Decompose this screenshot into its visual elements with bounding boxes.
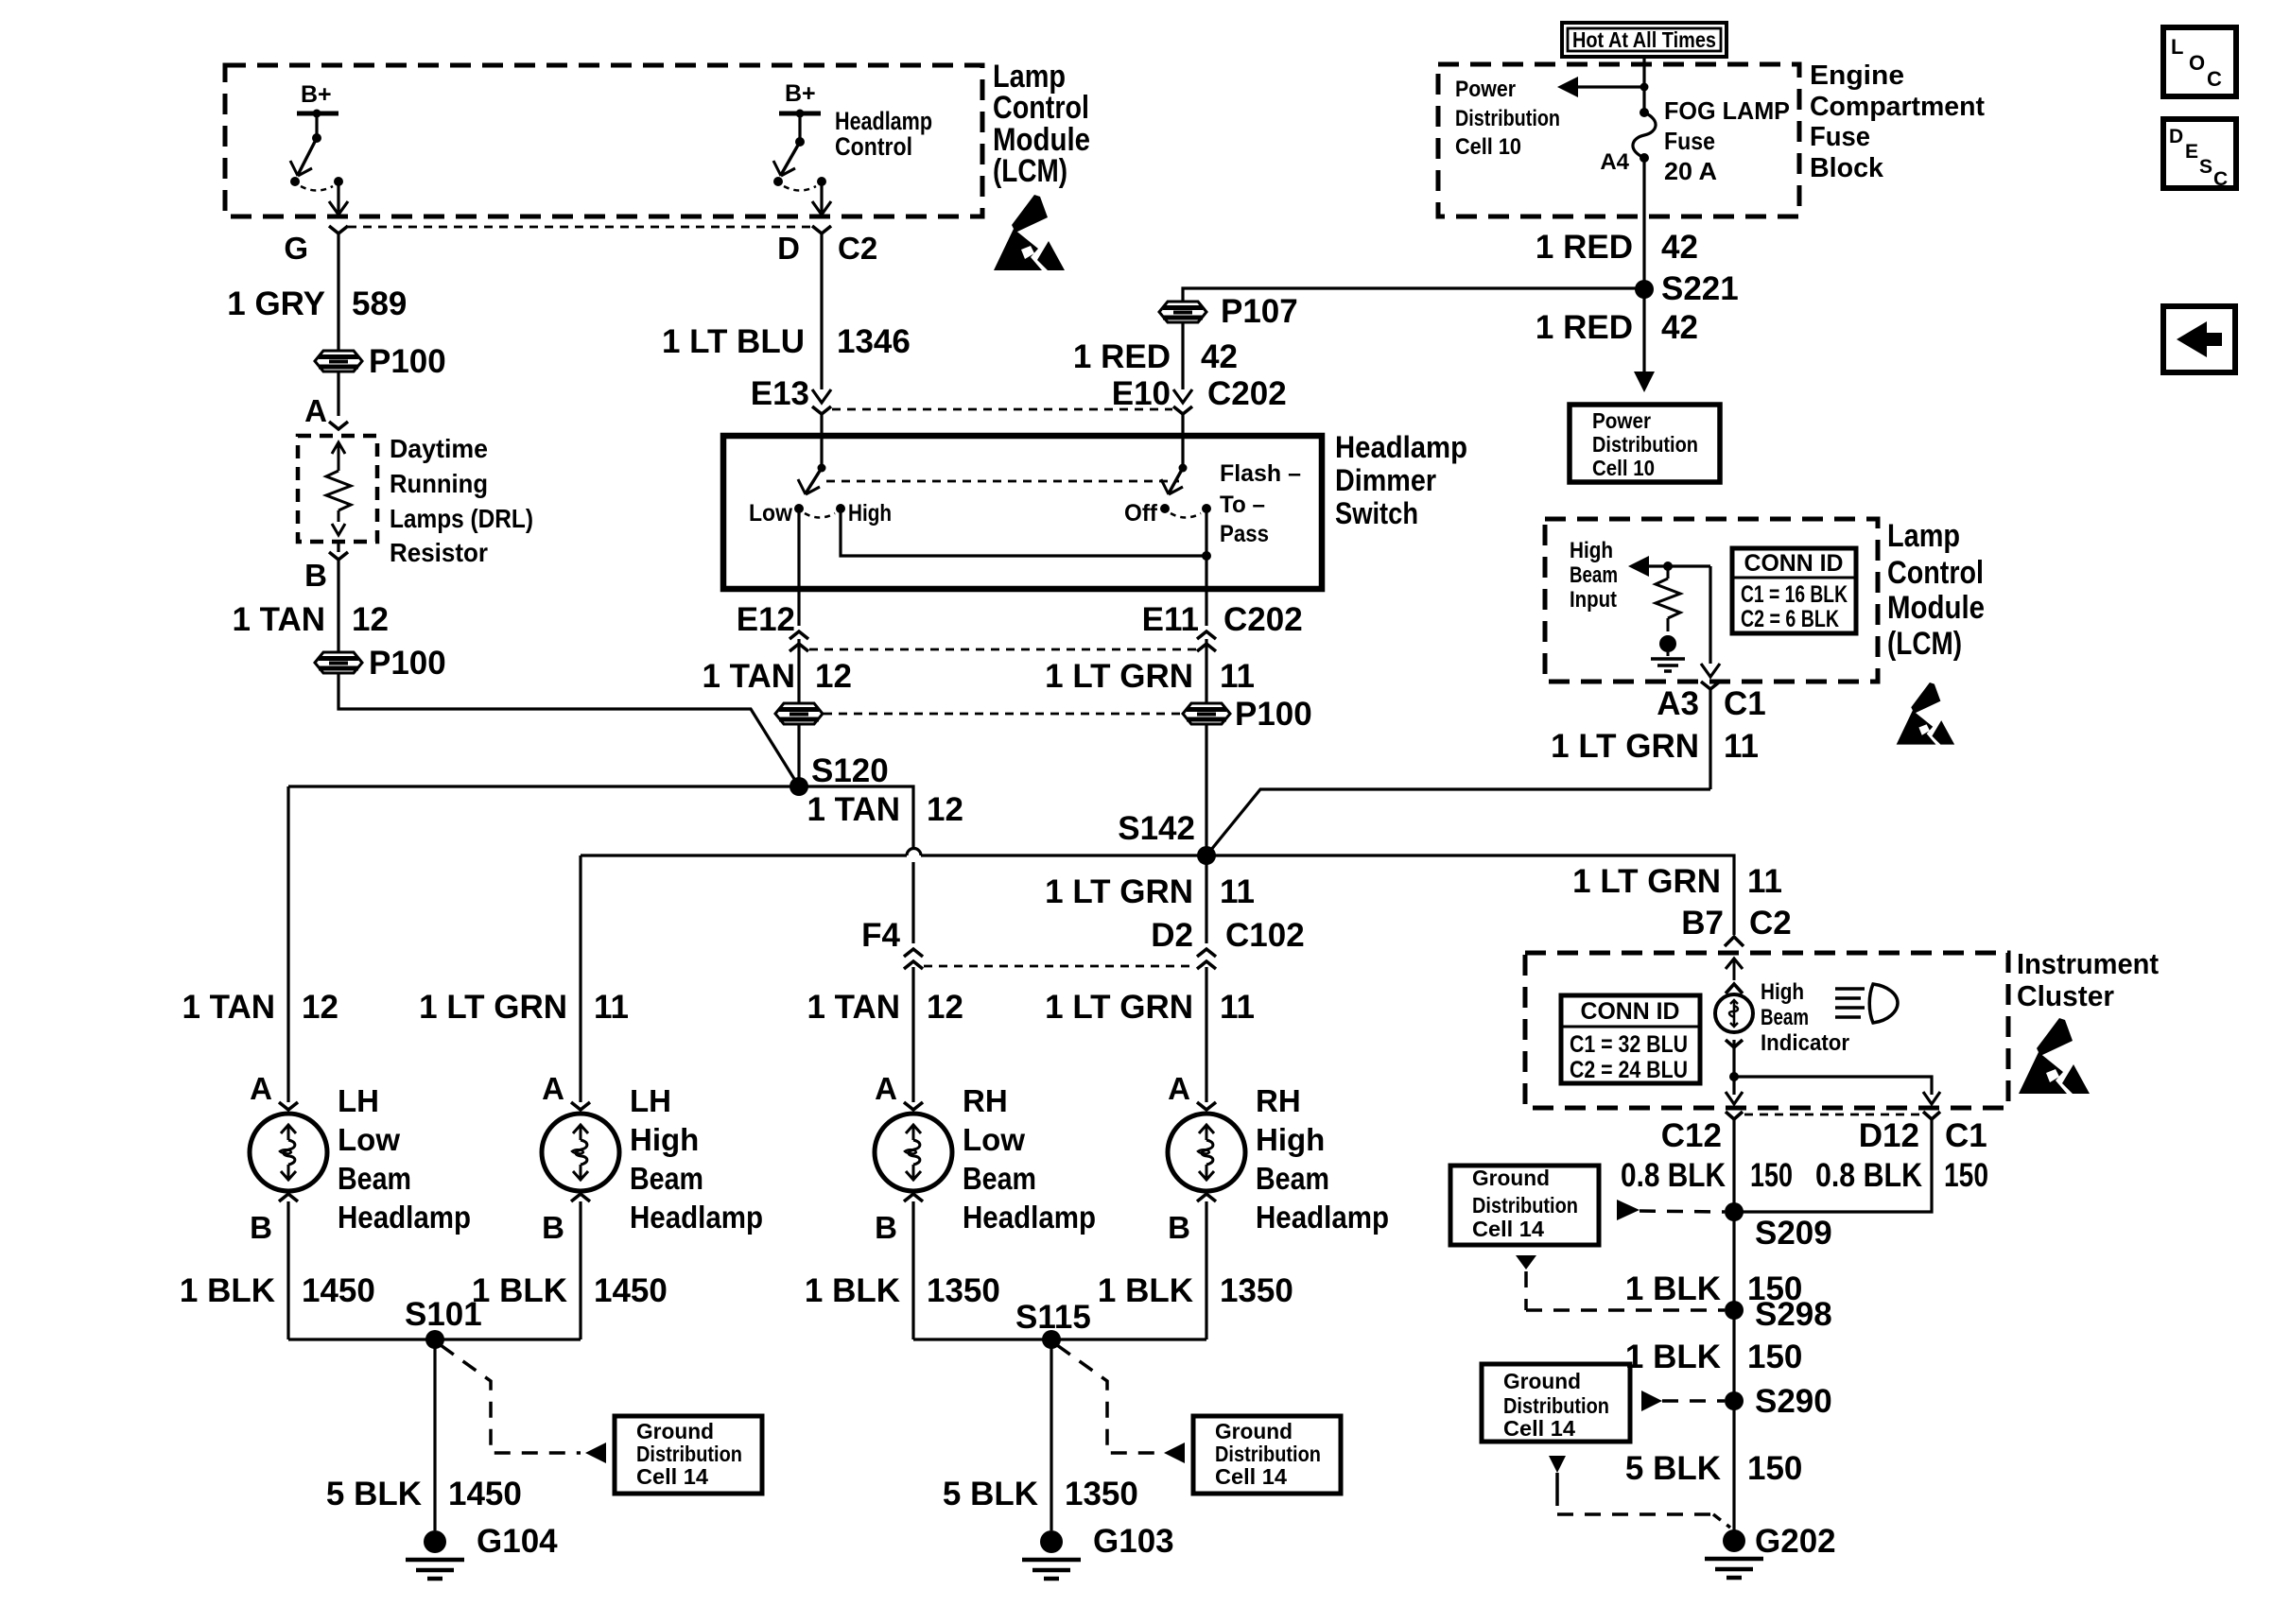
connector C12	[1726, 1112, 1743, 1119]
svg-text:12: 12	[302, 989, 338, 1026]
splice S298	[1725, 1301, 1744, 1320]
connector D2	[1197, 949, 1216, 957]
wire into dimmer	[820, 414, 823, 440]
svg-text:D: D	[2169, 126, 2183, 147]
RH Low Beam Headlamp bulb	[875, 1114, 952, 1191]
svg-text:C202: C202	[1223, 601, 1303, 638]
svg-text:5 BLK: 5 BLK	[326, 1476, 422, 1512]
svg-text:D12: D12	[1859, 1117, 1919, 1154]
wire 1 RED 42 (above S221)	[1642, 158, 1645, 288]
svg-text:Block: Block	[1810, 153, 1884, 183]
svg-text:(LCM): (LCM)	[1887, 626, 1962, 662]
svg-text:1 TAN: 1 TAN	[807, 989, 900, 1026]
connector P100 (TAN left)	[315, 652, 362, 673]
switch link dashed	[826, 480, 1179, 483]
svg-text:S298: S298	[1755, 1296, 1832, 1333]
wire 1 LT GRN 11 (A3)	[1709, 689, 1711, 789]
ground G202	[1723, 1529, 1745, 1552]
svg-text:O: O	[2189, 51, 2205, 75]
svg-text:Cell 10: Cell 10	[1592, 456, 1655, 480]
svg-text:1350: 1350	[927, 1272, 1000, 1309]
high beam indicator bulb	[1715, 994, 1753, 1032]
svg-text:Distribution: Distribution	[1455, 106, 1560, 131]
wire to S120	[338, 673, 799, 786]
svg-text:Beam: Beam	[338, 1161, 411, 1196]
svg-text:Cell 14: Cell 14	[1472, 1217, 1544, 1241]
svg-text:A: A	[304, 393, 327, 428]
svg-text:Fuse: Fuse	[1664, 127, 1715, 155]
splice S142	[1205, 724, 1207, 855]
svg-text:1 LT GRN: 1 LT GRN	[1045, 989, 1193, 1026]
arrow to power distribution	[1634, 371, 1655, 392]
pin B DRL	[337, 542, 339, 552]
ground dist dashed to G202	[1549, 1456, 1566, 1473]
ESD symbol cluster	[2019, 1018, 2090, 1094]
svg-text:C2 = 6 BLK: C2 = 6 BLK	[1741, 606, 1839, 632]
svg-text:High: High	[1256, 1122, 1325, 1157]
connector A3 C1	[1709, 566, 1711, 664]
svg-text:1 BLK: 1 BLK	[805, 1272, 900, 1309]
svg-text:G104: G104	[477, 1523, 558, 1560]
svg-text:42: 42	[1661, 309, 1698, 346]
wire S142 up-right to LCM	[1206, 789, 1710, 855]
svg-text:E10: E10	[1112, 375, 1171, 412]
svg-text:Switch: Switch	[1335, 496, 1418, 530]
connector E13	[812, 389, 831, 403]
splice S120	[797, 724, 800, 786]
svg-text:1350: 1350	[1220, 1272, 1293, 1309]
svg-text:S: S	[2199, 156, 2212, 178]
ground distribution cell 14 box (S209)	[1450, 1166, 1599, 1245]
svg-text:A: A	[1168, 1071, 1190, 1106]
svg-text:1350: 1350	[1065, 1476, 1138, 1512]
svg-text:A: A	[875, 1071, 897, 1106]
wire 1 BLK 150 (S298-S290)	[1732, 1310, 1735, 1401]
svg-text:589: 589	[352, 285, 407, 322]
svg-text:Lamp: Lamp	[1887, 518, 1960, 554]
splice S101	[288, 1338, 581, 1340]
svg-text:S101: S101	[405, 1296, 482, 1333]
svg-text:C1: C1	[1724, 685, 1766, 722]
svg-text:Module: Module	[1887, 590, 1985, 626]
svg-text:Control: Control	[835, 132, 912, 161]
svg-text:1 GRY: 1 GRY	[227, 285, 325, 322]
svg-text:Distribution: Distribution	[1215, 1442, 1321, 1466]
hot at all times box	[1562, 23, 1726, 57]
svg-text:C2 = 24 BLU: C2 = 24 BLU	[1570, 1057, 1688, 1083]
svg-text:Beam: Beam	[963, 1161, 1036, 1196]
svg-text:Flash –: Flash –	[1220, 460, 1301, 487]
svg-text:Distribution: Distribution	[1503, 1393, 1609, 1418]
svg-text:C1: C1	[1945, 1117, 1987, 1154]
ground dist arrow to S209	[1617, 1200, 1640, 1220]
svg-text:1 LT GRN: 1 LT GRN	[1045, 658, 1193, 695]
wire 1 LT GRN 11 to RH high beam lamp	[1205, 967, 1207, 1102]
svg-text:Ground: Ground	[1503, 1369, 1581, 1393]
wire 5 BLK 1350	[1050, 1339, 1052, 1530]
instrument cluster dashed box	[1525, 953, 2008, 1108]
svg-text:150: 150	[1750, 1157, 1793, 1194]
low-high switch	[820, 440, 823, 468]
connector E11	[1205, 589, 1207, 626]
connector F4	[904, 949, 923, 957]
svg-text:E: E	[2185, 141, 2198, 163]
svg-text:High: High	[1570, 538, 1613, 563]
svg-text:Beam: Beam	[1570, 562, 1618, 588]
svg-text:C: C	[2207, 67, 2222, 91]
svg-text:S221: S221	[1661, 270, 1739, 307]
C102 dashed link (F4-D2)	[924, 965, 1195, 968]
svg-text:42: 42	[1201, 338, 1238, 375]
wire to DRL A	[337, 371, 339, 416]
wire 0.8 BLK 150 (C12)	[1732, 1119, 1735, 1212]
wire S142 down	[1205, 855, 1207, 943]
svg-text:C202: C202	[1207, 375, 1287, 412]
ground distribution dashed ref (S101)	[441, 1345, 581, 1453]
svg-text:1346: 1346	[837, 323, 911, 360]
lamp control module (LCM) dashed box	[225, 65, 982, 216]
svg-text:Instrument: Instrument	[2017, 947, 2159, 980]
ground distribution dashed ref (S115)	[1057, 1345, 1159, 1453]
svg-text:Indicator: Indicator	[1761, 1030, 1849, 1056]
svg-text:C2: C2	[838, 231, 877, 266]
svg-text:Fuse: Fuse	[1810, 122, 1870, 152]
svg-text:To –: To –	[1220, 492, 1265, 518]
svg-text:L: L	[2171, 35, 2183, 59]
svg-text:150: 150	[1747, 1339, 1802, 1375]
svg-text:1 TAN: 1 TAN	[182, 989, 275, 1026]
svg-text:11: 11	[594, 989, 629, 1026]
svg-text:Distribution: Distribution	[1472, 1193, 1578, 1218]
svg-text:Cell 14: Cell 14	[636, 1464, 708, 1489]
wire from S221 to P107	[1183, 288, 1644, 302]
svg-text:Headlamp: Headlamp	[1335, 430, 1467, 464]
wire 5 BLK 150 (S290-G202)	[1732, 1401, 1735, 1530]
svg-text:G202: G202	[1755, 1523, 1836, 1560]
C202 dashed link (E13-E10)	[832, 408, 1172, 411]
headlamp dimmer switch box	[723, 436, 1322, 589]
ESD symbol LCM1	[994, 195, 1065, 270]
svg-text:1450: 1450	[594, 1272, 668, 1309]
headlamp control switch 2 (D)	[781, 142, 800, 175]
connector P100 (GRN)	[1183, 703, 1230, 724]
wire 1 RED 42 (below S221)	[1642, 289, 1645, 374]
svg-text:Hot At All Times: Hot At All Times	[1572, 27, 1716, 52]
svg-text:CONN ID: CONN ID	[1744, 550, 1844, 577]
svg-text:C12: C12	[1661, 1117, 1722, 1154]
svg-text:1 LT GRN: 1 LT GRN	[1045, 873, 1193, 910]
connector P107	[1159, 302, 1206, 322]
svg-text:Low: Low	[749, 500, 792, 527]
svg-text:B: B	[875, 1210, 897, 1245]
B+ terminal 2	[779, 112, 821, 116]
svg-text:1 TAN: 1 TAN	[702, 658, 795, 695]
pin B LH high	[571, 1194, 590, 1201]
svg-text:5 BLK: 5 BLK	[943, 1476, 1038, 1512]
svg-text:E11: E11	[1142, 601, 1199, 638]
svg-text:12: 12	[352, 601, 389, 638]
svg-text:Power: Power	[1455, 77, 1516, 102]
svg-text:E13: E13	[751, 375, 809, 412]
svg-text:C: C	[2213, 168, 2228, 190]
svg-text:Headlamp: Headlamp	[630, 1200, 763, 1235]
svg-text:High: High	[848, 500, 892, 527]
svg-text:B+: B+	[785, 80, 816, 107]
svg-text:Beam: Beam	[630, 1161, 703, 1196]
svg-text:Low: Low	[338, 1122, 400, 1157]
wire 1 GRY 589	[337, 233, 339, 351]
wire 1 LT GRN 11 (E11)	[1205, 639, 1207, 703]
wire hot to fuse	[1642, 57, 1645, 112]
svg-text:RH: RH	[1256, 1083, 1301, 1118]
svg-text:150: 150	[1944, 1157, 1988, 1194]
pin B RH high	[1197, 1194, 1216, 1201]
off-flash switch	[1181, 440, 1184, 468]
svg-text:Beam: Beam	[1256, 1161, 1329, 1196]
fuse FOG LAMP 20A	[1640, 108, 1649, 117]
svg-text:Cell 14: Cell 14	[1215, 1464, 1287, 1489]
svg-text:High: High	[630, 1122, 699, 1157]
svg-text:Cluster: Cluster	[2017, 979, 2114, 1012]
splice S209	[1725, 1202, 1744, 1221]
splice S221	[1635, 280, 1654, 299]
svg-text:Input: Input	[1570, 587, 1617, 613]
svg-text:Running: Running	[390, 469, 488, 498]
svg-text:Cell 14: Cell 14	[1503, 1416, 1575, 1441]
svg-text:1 BLK: 1 BLK	[180, 1272, 275, 1309]
C202 dashed link (E12-E11)	[809, 648, 1196, 651]
LOC box	[2163, 27, 2236, 96]
wire into dimmer 2	[1181, 414, 1184, 440]
RH High Beam Headlamp bulb	[1168, 1114, 1245, 1191]
svg-text:1 TAN: 1 TAN	[232, 601, 325, 638]
svg-text:1 LT GRN: 1 LT GRN	[1572, 863, 1721, 900]
svg-text:1450: 1450	[302, 1272, 375, 1309]
ESD symbol LCM2	[1897, 682, 1954, 745]
svg-text:FOG LAMP: FOG LAMP	[1664, 96, 1790, 125]
wire S142 right to cluster	[1206, 855, 1734, 935]
wire 1 TAN 12 to LH low beam lamp	[286, 786, 289, 1102]
svg-text:D: D	[777, 231, 800, 266]
connector E12	[797, 589, 800, 626]
svg-text:A3: A3	[1657, 685, 1699, 722]
wire 1 TAN 12 to RH low beam lamp	[911, 967, 914, 1102]
svg-text:Power: Power	[1592, 408, 1651, 433]
svg-text:S142: S142	[1118, 810, 1195, 847]
power distribution arrow (fuse box)	[1573, 85, 1644, 88]
cluster entry	[1726, 959, 1743, 969]
pin B LH low	[279, 1194, 298, 1201]
svg-text:C102: C102	[1225, 917, 1305, 954]
svg-text:150: 150	[1747, 1450, 1802, 1487]
svg-text:Headlamp: Headlamp	[835, 107, 932, 135]
svg-text:Ground: Ground	[1215, 1419, 1293, 1443]
wire S120 left to LH low	[288, 785, 799, 787]
pin D connector	[812, 226, 831, 233]
back arrow box	[2163, 306, 2235, 372]
svg-text:11: 11	[1747, 863, 1782, 900]
CONN ID box (LCM2)	[1732, 548, 1856, 633]
svg-text:5 BLK: 5 BLK	[1625, 1450, 1721, 1487]
wire S120 right	[799, 786, 913, 848]
svg-text:Ground: Ground	[636, 1419, 714, 1443]
wire 5 BLK 1450	[433, 1339, 436, 1530]
svg-text:LH: LH	[630, 1083, 671, 1118]
svg-text:B: B	[1168, 1210, 1190, 1245]
svg-text:A: A	[542, 1071, 564, 1106]
svg-text:1 LT GRN: 1 LT GRN	[419, 989, 567, 1026]
svg-text:Headlamp: Headlamp	[963, 1200, 1096, 1235]
DRL resistor element	[332, 442, 345, 454]
wire 1 TAN 12 (left)	[337, 560, 339, 652]
svg-text:A4: A4	[1600, 149, 1629, 175]
svg-text:Distribution: Distribution	[1592, 432, 1698, 457]
svg-text:11: 11	[1724, 728, 1759, 765]
ground distribution cell 14 box (S101)	[615, 1416, 762, 1494]
svg-text:Control: Control	[1887, 555, 1984, 591]
wire 1 TAN 12 (E12)	[797, 639, 800, 703]
ground dist arrow to S290	[1641, 1391, 1662, 1411]
P100 dashed link	[824, 713, 1181, 716]
wire S142 left to LH high	[581, 854, 907, 856]
pin G connector	[329, 226, 348, 233]
svg-text:1 BLK: 1 BLK	[1098, 1272, 1193, 1309]
svg-text:Control: Control	[993, 90, 1089, 126]
svg-text:11: 11	[1220, 989, 1255, 1026]
svg-text:C2: C2	[1749, 905, 1792, 942]
svg-text:1 RED: 1 RED	[1536, 229, 1633, 266]
wire 0.8 BLK 150 (D12)	[1734, 1119, 1932, 1212]
svg-text:Resistor: Resistor	[390, 538, 488, 567]
connector E10	[1173, 389, 1192, 403]
svg-text:12: 12	[927, 989, 963, 1026]
svg-text:0.8 BLK: 0.8 BLK	[1621, 1157, 1726, 1194]
svg-text:RH: RH	[963, 1083, 1008, 1118]
svg-text:Dimmer: Dimmer	[1335, 463, 1436, 497]
low contact wire	[797, 509, 800, 589]
svg-text:12: 12	[927, 791, 963, 828]
svg-text:S120: S120	[811, 752, 889, 789]
svg-text:High: High	[1761, 979, 1804, 1005]
svg-text:1 LT GRN: 1 LT GRN	[1551, 728, 1699, 765]
svg-text:CONN ID: CONN ID	[1581, 998, 1680, 1025]
svg-text:Distribution: Distribution	[636, 1442, 742, 1466]
svg-text:P100: P100	[1235, 696, 1312, 733]
svg-text:0.8 BLK: 0.8 BLK	[1815, 1157, 1922, 1194]
svg-text:B+: B+	[301, 81, 332, 108]
ground distribution cell 14 box (S115)	[1193, 1416, 1341, 1494]
indicator output wire	[1726, 1040, 1743, 1047]
wire hop over	[907, 849, 921, 855]
svg-text:A: A	[250, 1071, 272, 1106]
engine compartment fuse block dashed box	[1438, 64, 1799, 216]
svg-text:Pass: Pass	[1220, 521, 1269, 547]
cluster conn dashed link	[1744, 1114, 1921, 1116]
svg-text:B: B	[250, 1210, 272, 1245]
svg-text:Headlamp: Headlamp	[1256, 1200, 1389, 1235]
LCM2 dashed box	[1545, 519, 1878, 682]
ground distribution cell 14 box (S290)	[1482, 1364, 1630, 1442]
CONN ID box (cluster)	[1561, 995, 1700, 1083]
wire 1 LT BLU 1346	[820, 233, 823, 389]
indicator wire to C1	[1734, 1077, 1932, 1095]
svg-text:11: 11	[1220, 873, 1255, 910]
splice S290	[1725, 1391, 1744, 1410]
svg-text:D2: D2	[1151, 917, 1193, 954]
svg-text:Cell 10: Cell 10	[1455, 134, 1521, 160]
svg-text:1 TAN: 1 TAN	[807, 791, 900, 828]
svg-text:B7: B7	[1681, 905, 1724, 942]
wire 1 LT GRN 11 to LH high beam lamp	[579, 855, 581, 1102]
C2 connector dashed link (G-D)	[348, 226, 811, 229]
svg-text:(LCM): (LCM)	[993, 153, 1067, 189]
connector B7 C2	[1725, 937, 1744, 946]
LH Low Beam Headlamp bulb	[250, 1114, 327, 1191]
svg-text:1 BLK: 1 BLK	[472, 1272, 567, 1309]
svg-text:S209: S209	[1755, 1215, 1832, 1252]
svg-text:C1 = 16 BLK: C1 = 16 BLK	[1741, 581, 1848, 608]
svg-text:Ground: Ground	[1472, 1166, 1550, 1190]
svg-text:S115: S115	[1015, 1299, 1091, 1336]
connector P100 (GRY)	[315, 351, 362, 371]
svg-text:1 BLK: 1 BLK	[1625, 1270, 1721, 1307]
svg-text:B: B	[542, 1210, 564, 1245]
svg-text:1450: 1450	[448, 1476, 522, 1512]
svg-text:LH: LH	[338, 1083, 379, 1118]
svg-text:P100: P100	[369, 343, 446, 380]
svg-text:Compartment: Compartment	[1810, 92, 1985, 122]
svg-text:B: B	[304, 558, 327, 593]
svg-text:C1 = 32 BLU: C1 = 32 BLU	[1570, 1031, 1688, 1058]
connector D12 C1	[1923, 1112, 1940, 1119]
ground dist dashed to S298	[1516, 1255, 1536, 1270]
svg-text:G103: G103	[1093, 1523, 1174, 1560]
svg-text:Daytime: Daytime	[390, 434, 488, 463]
DESC box	[2163, 119, 2236, 188]
wire 1 BLK 150 (S209-S298)	[1732, 1212, 1735, 1310]
wire 1 RED 42 (to E10)	[1181, 322, 1184, 389]
svg-text:Low: Low	[963, 1122, 1025, 1157]
B+ terminal 1	[297, 112, 338, 116]
connector P100 (TAN)	[775, 703, 823, 724]
ground G103	[1040, 1530, 1063, 1553]
svg-text:1 LT BLU: 1 LT BLU	[662, 323, 805, 360]
svg-text:20 A: 20 A	[1664, 157, 1717, 185]
svg-text:P100: P100	[369, 645, 446, 682]
ground G104	[424, 1530, 446, 1553]
svg-text:1 RED: 1 RED	[1536, 309, 1633, 346]
svg-text:Headlamp: Headlamp	[338, 1200, 471, 1235]
svg-text:Off: Off	[1124, 500, 1158, 527]
svg-text:1 BLK: 1 BLK	[1625, 1339, 1721, 1375]
splice S115	[913, 1338, 1206, 1340]
svg-text:11: 11	[1220, 658, 1255, 695]
high beam input arrow	[1628, 556, 1649, 577]
headlamp-control switch 1 (G)	[298, 138, 317, 175]
LH High Beam Headlamp bulb	[542, 1114, 619, 1191]
svg-text:G: G	[284, 231, 308, 266]
svg-text:E12: E12	[737, 601, 795, 638]
pin B RH low	[904, 1194, 923, 1201]
svg-text:Lamps (DRL): Lamps (DRL)	[390, 504, 533, 533]
svg-text:S290: S290	[1755, 1383, 1832, 1420]
svg-text:Beam: Beam	[1761, 1005, 1809, 1030]
svg-text:Engine: Engine	[1810, 60, 1904, 91]
svg-text:42: 42	[1661, 229, 1698, 266]
svg-text:1 RED: 1 RED	[1073, 338, 1171, 375]
svg-text:P107: P107	[1221, 293, 1298, 330]
flash contact wire	[1205, 509, 1207, 589]
